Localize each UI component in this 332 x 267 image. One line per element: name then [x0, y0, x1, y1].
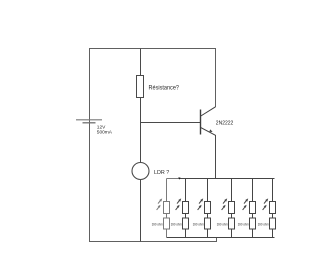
svg-text:LDR ?: LDR ?	[154, 170, 169, 176]
svg-text:2N2222: 2N2222	[216, 121, 234, 127]
svg-text:Résistance?: Résistance?	[149, 85, 180, 91]
svg-text:500mA: 500mA	[97, 129, 113, 135]
